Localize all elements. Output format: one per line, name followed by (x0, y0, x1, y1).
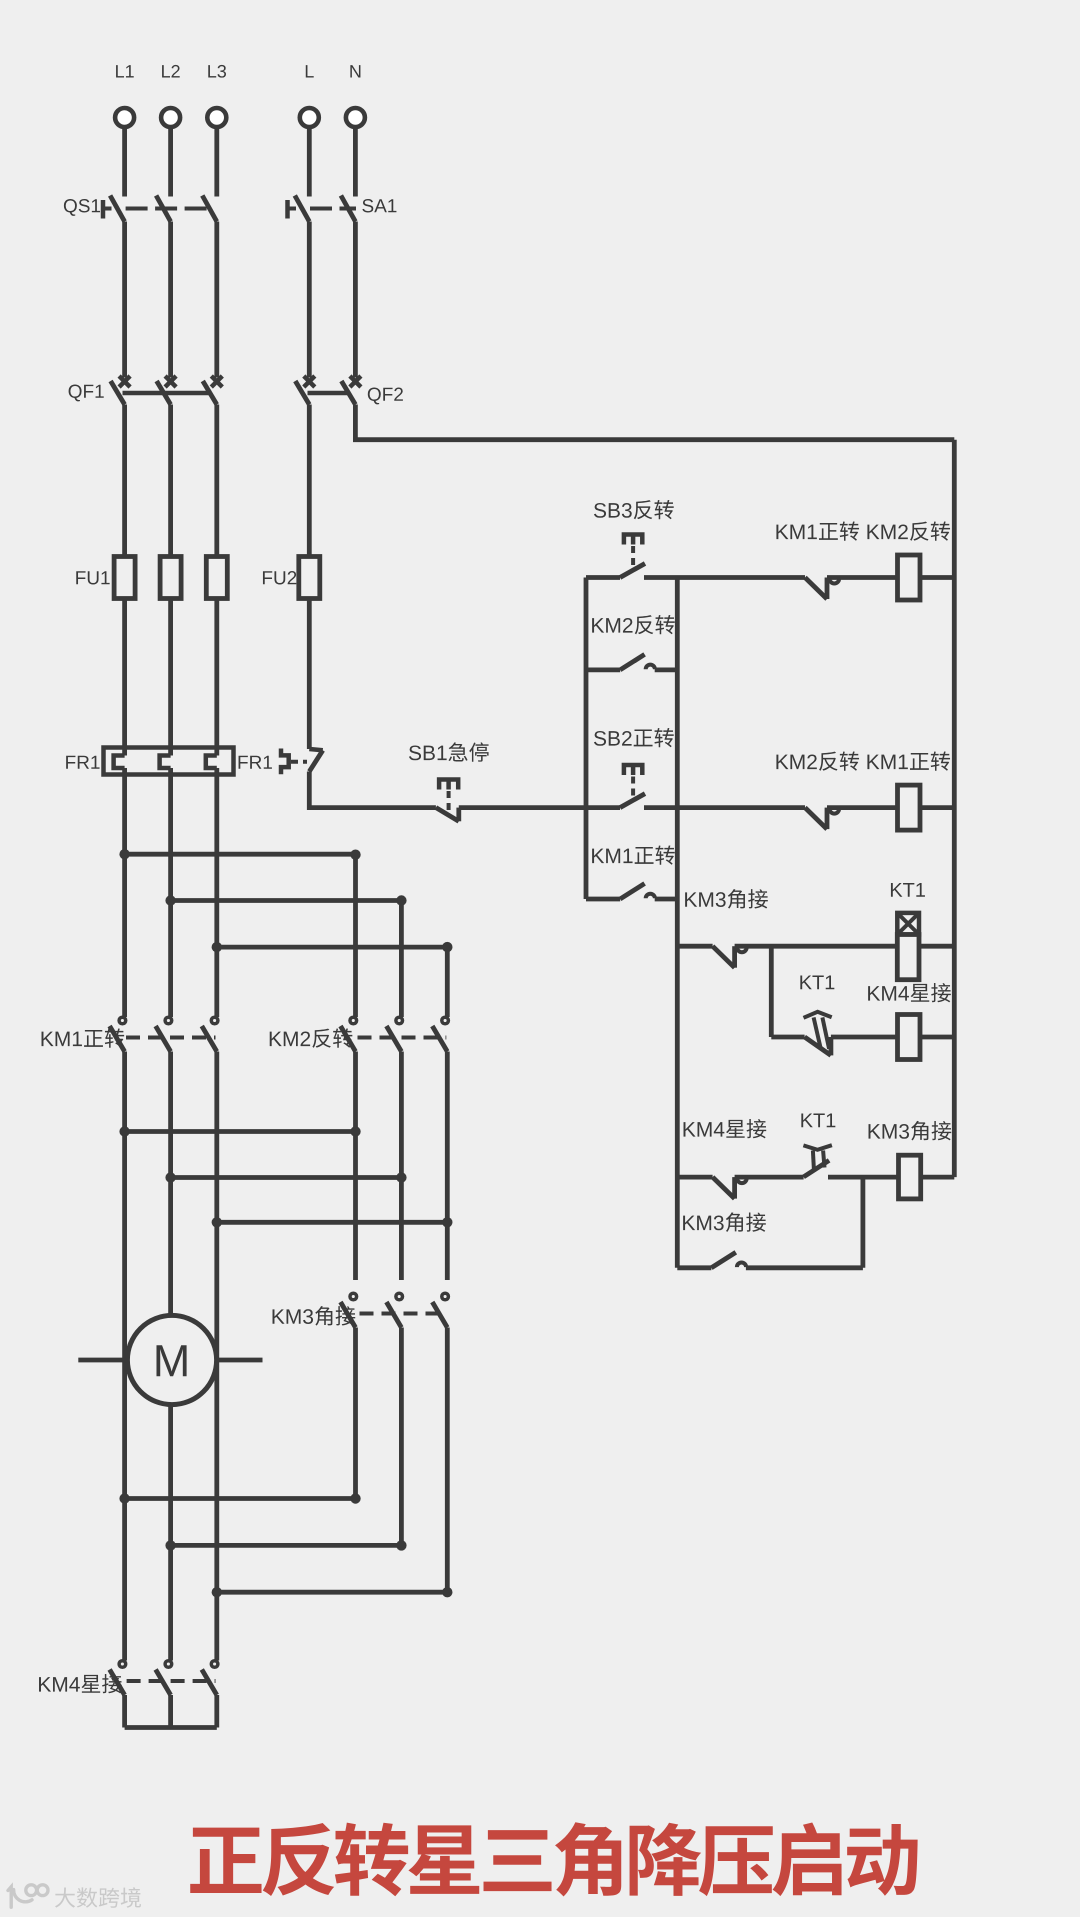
contactor KM2 linkage (dashed) (358, 1036, 447, 1040)
contactor KM1正转 label (42, 1028, 125, 1047)
node L3 label (208, 65, 226, 78)
pushbutton SB1 label (409, 742, 489, 761)
wire control right rail (952, 440, 957, 1177)
contactor KM1 pole 1 (119, 1017, 126, 1024)
thermal relay FR1 NC contact (309, 749, 323, 772)
wire star point bar (125, 1725, 217, 1730)
breaker QF1 label (69, 385, 104, 402)
wire FU2 to FR1 contact (307, 599, 312, 750)
wire crossover row3 (217, 1220, 447, 1225)
wire L2 terminal to switch (168, 128, 173, 197)
wire KM3 latch right (746, 1265, 863, 1270)
wire branch row1 (125, 852, 356, 857)
contactor KM1 pole 3 (211, 1017, 218, 1024)
junction dots crossover (119, 1126, 129, 1136)
wire fuse to thermal relay (168, 599, 173, 756)
wire control middle rail (675, 578, 680, 1268)
terminal N (346, 108, 365, 127)
wire KM4 out (122, 1695, 127, 1728)
thermal relay FR1 trip link (dashed) (291, 760, 307, 764)
wire KM3 branch left (677, 1175, 712, 1180)
contactor KM3 pole 1 (350, 1293, 357, 1300)
wire KM3 branch mid1 (735, 1175, 804, 1180)
wire delta row2 (171, 1543, 402, 1548)
node L2 label (162, 65, 180, 78)
pushbutton SB3 NO contact (620, 564, 645, 578)
wire delta row1 (125, 1496, 356, 1501)
junction dots rows top-right (350, 850, 360, 860)
wire rung1 left (586, 575, 620, 580)
contactor KM1 pole 2 (165, 1017, 172, 1024)
wire rung1 middle (644, 575, 805, 580)
motor left stub (78, 1358, 126, 1363)
fuse FU2 element (299, 557, 320, 599)
pushbutton SB2 NO contact (620, 794, 645, 808)
contact KM4星接 NC (713, 1177, 735, 1199)
wire FR1 contact to SB1 (309, 772, 436, 808)
pushbutton SB3 label (594, 500, 674, 519)
contactor KM3 linkage (dashed) (360, 1312, 447, 1316)
contactor KM3角接 label (273, 1306, 356, 1326)
contact KM3角接 NC label (685, 889, 768, 909)
breaker QF1 pole 2 (x mark + blade) (157, 376, 177, 405)
wire KM2 out b (399, 1052, 404, 1281)
contact KM2反转 NO latch (618, 668, 623, 673)
wire KM2 latch left (586, 668, 620, 673)
wire KM2 feeder down (353, 854, 358, 1017)
terminal L (300, 108, 319, 127)
wire N switch to breaker (353, 222, 358, 378)
node L label (306, 65, 314, 77)
breaker QF2 pole 1 (x mark + blade) (295, 376, 315, 405)
wire rung1 coil to right rail (920, 575, 954, 580)
contact KM4星接 NC label (684, 1119, 767, 1138)
contact KT1 NO delayed (803, 1145, 832, 1177)
pushbutton SB2 label (594, 728, 674, 747)
coil KM2反转 (898, 555, 921, 600)
contact KM3角接 latch label (683, 1212, 766, 1232)
wire KT1 rung left (677, 944, 712, 949)
wire KM3 out a (353, 1328, 358, 1499)
contact KT1 NC delayed (804, 1012, 832, 1056)
fuse FU1 element 3 (206, 557, 227, 599)
wire L3 switch to breaker (214, 222, 219, 378)
terminal L2 (161, 108, 180, 127)
thermal relay FR1 trip bracket (281, 749, 289, 775)
wire KM2 feeder down (445, 947, 450, 1017)
wire N to control right rail (355, 405, 954, 440)
switch SA1 pole 1 blade (295, 196, 310, 222)
motor M circle (127, 1315, 216, 1404)
breaker QF2 pole 2 (x mark + blade) (341, 376, 361, 405)
wire KM4 branch left (771, 1035, 804, 1040)
wire KM3 out b (399, 1328, 404, 1546)
thermal relay FR1 heater 3 (206, 756, 217, 769)
wire KM2 latch right (655, 668, 678, 673)
junction dots rows top-left (119, 849, 129, 859)
wire L terminal to switch (307, 128, 312, 197)
wire N terminal to switch (353, 128, 358, 197)
wire branch row3 (217, 945, 447, 950)
pushbutton SB3 head (624, 535, 642, 545)
wire crossover row1 (125, 1129, 356, 1134)
wire KM3 branch mid2 (828, 1175, 898, 1180)
wire KM4 out (214, 1695, 219, 1728)
switch SA1 handle bar (285, 200, 290, 219)
coil KM3角接 label (869, 1121, 952, 1141)
contactor KM4星接 label (39, 1674, 122, 1693)
contact KM3角接 NC (713, 946, 735, 968)
motor M letter (156, 1345, 186, 1376)
fuse FU2 label (263, 571, 296, 584)
wire main rung to coil (827, 805, 898, 810)
pushbutton SB3 stem (dashed) (631, 546, 635, 570)
breaker QF1 linkage (123, 391, 212, 396)
wire KM4 out (168, 1695, 173, 1728)
pushbutton SB1 NC contact (436, 808, 459, 822)
thermal relay FR1 heater 2 (160, 756, 171, 769)
switch SA1 linkage (dashed) (310, 207, 356, 211)
wire breaker to fuse (122, 405, 127, 557)
switch QS1 pole 2 blade (156, 196, 171, 222)
contactor KM4 pole 2 (165, 1661, 172, 1668)
wire main rung coil to right rail (920, 805, 954, 810)
wire KM1 latch left (586, 897, 620, 902)
wire KM2 feeder down (399, 901, 404, 1018)
wire fuse to thermal relay (122, 599, 127, 756)
wire breaker to fuse (214, 405, 219, 557)
fuse FU1 element 2 (160, 557, 181, 599)
coil labels KM1正转 KM2反转 (776, 521, 950, 540)
contact KT1 delay label (800, 975, 834, 989)
coil KM1正转 (898, 785, 921, 830)
wire control left rail (584, 578, 589, 900)
pushbutton SB2 head (624, 765, 642, 775)
contact KM2 NC (main rung) (805, 808, 827, 830)
breaker QF1 pole 1 (x mark + blade) (111, 376, 131, 405)
wire L3 terminal to switch (214, 128, 219, 197)
contactor KM3 pole 3 (442, 1293, 449, 1300)
thermal relay FR1 contact label (239, 756, 272, 769)
motor right stub (217, 1358, 263, 1363)
junction dots delta rows (119, 1493, 129, 1503)
wire L1 terminal to switch (122, 128, 127, 197)
contact KM1正转 NO latch (618, 897, 623, 902)
contact KM1 NC (rung1) (805, 578, 827, 600)
contactor KM4 linkage (dashed) (127, 1679, 216, 1683)
wire KM3 coil to right rail (921, 1175, 955, 1180)
wire KT1 coil to right rail (919, 944, 954, 949)
timer KT1 delay element (897, 913, 919, 935)
switch SA1 pole 2 blade (341, 196, 356, 222)
wire L3 phase to motor (214, 1052, 219, 1661)
wire L1 phase to motor (122, 1052, 127, 1661)
contactor KM2 pole 1 (350, 1017, 357, 1024)
pushbutton SB1 stem (dashed) (447, 791, 451, 814)
contactor KM2 pole 3 (442, 1017, 449, 1024)
wire breaker to fuse (307, 405, 312, 557)
switch QS1 label (64, 199, 100, 216)
wire delta row3 (217, 1590, 447, 1595)
wire KM3 latch left (677, 1265, 711, 1270)
thermal relay FR1 heater 1 (114, 756, 125, 769)
wire phase down (214, 768, 219, 1017)
fuse FU1 label (76, 571, 109, 584)
wire KT1 rung middle (735, 944, 898, 949)
wire KM2 out c (445, 1052, 450, 1281)
terminal L1 (115, 108, 134, 127)
wire SB1 to left rail (459, 805, 586, 810)
wire fuse to thermal relay (214, 599, 219, 756)
thermal relay FR1 label (66, 756, 99, 769)
wire crossover row2 (171, 1175, 402, 1180)
wire L1 switch to breaker (122, 222, 127, 378)
wire rung1 to coil (827, 575, 898, 580)
contactor KM4 pole 3 (211, 1661, 218, 1668)
pushbutton SB1 head (439, 780, 458, 790)
contactor KM2 pole 2 (396, 1017, 403, 1024)
watermark text 大数跨境 (55, 1887, 141, 1907)
switch SA1 label (362, 199, 396, 212)
wire L2 switch to breaker (168, 222, 173, 378)
switch QS1 handle bar (101, 200, 106, 219)
contact KM1正转 latch label (592, 845, 675, 864)
coil KM4星接 label (868, 983, 951, 1002)
wire KM1 latch right (655, 897, 678, 902)
timer KT1 label (891, 883, 925, 897)
wire KM4 branch middle (831, 1035, 898, 1040)
node L1 label (116, 65, 134, 77)
breaker QF1 pole 3 (x mark + blade) (203, 376, 223, 405)
switch QS1 linkage (dashed) (126, 207, 212, 211)
contactor KM2反转 label (270, 1028, 353, 1047)
wire tap rail after KM3 NC (769, 946, 774, 1037)
wire L2 phase to motor (168, 1052, 173, 1316)
contactor KM4 pole 1 (119, 1661, 126, 1668)
breaker QF2 linkage (308, 391, 351, 396)
coil KM3角接 (899, 1155, 921, 1199)
coil KM4星接 (898, 1015, 921, 1060)
contact KM3角接 NO latch (709, 1265, 714, 1270)
watermark logo (8, 1885, 48, 1907)
wire KM4 coil to right rail (920, 1035, 954, 1040)
timer KT1 coil (897, 935, 919, 980)
contactor KM1 linkage (dashed) (126, 1036, 216, 1040)
thermal relay FR1 box (104, 748, 234, 775)
pushbutton SB2 stem (dashed) (631, 777, 635, 801)
wire main rung left (586, 805, 620, 810)
switch QS1 pole 3 blade (202, 196, 217, 222)
wire branch row2 (171, 898, 402, 903)
wire KM2 out a (353, 1052, 358, 1281)
terminal L3 (207, 108, 226, 127)
coil labels KM2反转 KM1正转 (776, 751, 950, 770)
fuse FU1 element 1 (114, 557, 135, 599)
breaker QF2 label (368, 388, 403, 405)
node N label (350, 65, 360, 77)
wire L2 phase below motor (168, 1405, 173, 1661)
contact KT1 NO delay label (801, 1113, 835, 1127)
wire breaker to fuse (168, 405, 173, 557)
wire KM3 out c (445, 1328, 450, 1593)
contactor KM3 pole 2 (396, 1293, 403, 1300)
switch QS1 pole 1 blade (110, 196, 125, 222)
wire L switch to breaker (307, 222, 312, 378)
wire main rung middle (644, 805, 805, 810)
title 正反转星三角降压启动 (190, 1822, 917, 1896)
wire tap rail to KM3 latch (861, 1177, 866, 1268)
contact KM2反转 latch label (592, 615, 675, 634)
wire phase down (122, 768, 127, 1017)
wire phase down (168, 768, 173, 1017)
